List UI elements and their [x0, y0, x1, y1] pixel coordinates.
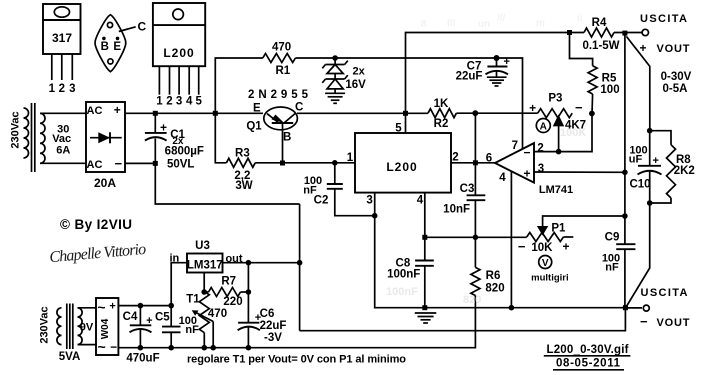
svg-text:9V: 9V: [80, 322, 94, 334]
transformer T230/30V primary coil: [24, 108, 29, 158]
wire: C10 bottom down then diagonal to output junction: [626, 203, 650, 308]
svg-text:© By I2VIU: © By I2VIU: [60, 217, 132, 232]
wire: op-amp pin3 to x625.5 line: [534, 171, 626, 173]
svg-text:V: V: [542, 258, 549, 269]
capacitor C4 470uF: [130, 306, 153, 348]
wire: C1 bottom down and right to x299.6 (ground return): [155, 163, 299, 204]
svg-text:5: 5: [195, 96, 202, 108]
wire: LM317 out to x299.6: [223, 262, 300, 264]
svg-text:10K: 10K: [531, 242, 553, 254]
bridge rectifier 20A box: [86, 102, 125, 190]
svg-text:820: 820: [463, 294, 481, 306]
svg-text:230Vac: 230Vac: [38, 306, 50, 343]
transformer T2 primary coil: [57, 308, 62, 345]
svg-text:+: +: [160, 121, 167, 135]
svg-text:3: 3: [69, 83, 75, 95]
node C6 bottom on rail C: [246, 345, 252, 351]
svg-text:16V: 16V: [345, 79, 366, 91]
svg-text:A: A: [540, 122, 547, 133]
svg-text:−: −: [640, 314, 648, 329]
svg-text:L200_0-30V.gif: L200_0-30V.gif: [547, 344, 629, 356]
wire: x215 down to R3 corner: [215, 113, 226, 163]
svg-text:0-5A: 0-5A: [663, 83, 688, 95]
terminal USCITA + (circle): [642, 29, 648, 35]
svg-text:LM741: LM741: [539, 184, 573, 196]
svg-text:220: 220: [223, 296, 242, 308]
svg-text:+: +: [529, 101, 536, 115]
svg-text:1: 1: [347, 152, 354, 164]
node C10/R8 bottom: [647, 200, 653, 206]
bridge rectifier W04 box: [96, 298, 118, 355]
svg-text:C: C: [295, 102, 303, 114]
node C5 bottom: [168, 345, 174, 351]
svg-text:3: 3: [538, 163, 544, 175]
svg-text:0.1-5W: 0.1-5W: [582, 40, 619, 52]
svg-text:C: C: [137, 20, 146, 34]
node R1 corner on main rail: [213, 111, 218, 116]
svg-text:5: 5: [395, 123, 402, 135]
svg-text:B: B: [283, 132, 291, 144]
node C10/R8 top: [647, 128, 653, 134]
node P3 wiper to pin2: [556, 149, 562, 155]
op-amp pin labels 7 2 6 4 3: [486, 140, 544, 184]
svg-text:un: un: [478, 19, 490, 30]
svg-text:+: +: [109, 301, 115, 313]
capacitor C10 100uF: [638, 131, 662, 203]
svg-text:+: +: [562, 240, 569, 254]
wire: LM317 adj down: [203, 273, 205, 293]
svg-text:ii: ii: [577, 13, 583, 24]
svg-text:100K: 100K: [560, 127, 586, 139]
svg-text:C6: C6: [260, 308, 275, 320]
svg-text:+: +: [146, 315, 152, 327]
capacitor C7 22uF: [486, 56, 510, 77]
svg-text:470: 470: [208, 308, 227, 320]
node C1 bottom: [153, 161, 158, 166]
svg-text:+: +: [114, 103, 121, 117]
label 2N2955 E C Q1 B: [246, 89, 308, 144]
capacitor C6 22uF: [238, 312, 262, 348]
svg-text:L200: L200: [386, 160, 417, 174]
svg-text:22uF: 22uF: [260, 320, 287, 332]
node R7 right on C6 branch: [246, 289, 252, 295]
node R2/C3 junction: [472, 110, 478, 116]
wire junction to terminal: [625, 307, 642, 309]
potentiometer P1 10K: [527, 233, 564, 242]
node C7 tap on y58 wire: [494, 55, 500, 61]
svg-text:R5: R5: [602, 73, 617, 85]
node C4 top: [138, 303, 144, 309]
svg-text:1: 1: [49, 83, 56, 95]
svg-text:~: ~: [97, 299, 105, 315]
svg-text:−: −: [518, 239, 526, 254]
svg-text:20A: 20A: [94, 176, 116, 190]
svg-text:nF: nF: [605, 261, 619, 273]
svg-text:L200: L200: [163, 46, 194, 60]
ground symbol on rail A: [415, 313, 437, 323]
svg-text:nF: nF: [185, 324, 199, 336]
svg-text:470: 470: [272, 42, 291, 54]
potentiometer P3 4K7: [538, 109, 573, 118]
wire: top rail from x405.5 corner to R4: [406, 33, 585, 114]
node R4 left: [567, 30, 572, 35]
resistor R4 0.1-5W: [584, 28, 614, 37]
svg-text:3: 3: [366, 195, 372, 207]
node LM317 out to x299.6: [297, 260, 303, 266]
wire: y237 from pin4 node to P1: [425, 236, 527, 238]
svg-text:4: 4: [499, 172, 506, 184]
node C4 bottom: [138, 345, 144, 351]
LM317 package TO-220 (top-left): [43, 4, 81, 95]
svg-text:R4: R4: [592, 17, 607, 29]
wire: op-amp pin2 to corner x592: [534, 114, 592, 152]
P1 wiper arrow: [537, 226, 548, 236]
node C1 top: [153, 111, 158, 116]
wire: R1 right to zener node to C7 node to pin7 corner: [295, 58, 522, 149]
node zener top: [332, 55, 338, 61]
svg-text:0-30V: 0-30V: [661, 71, 692, 83]
svg-text:2x: 2x: [352, 66, 365, 78]
node C6 branch on out wire: [246, 260, 252, 266]
svg-text:−: −: [575, 100, 583, 115]
wire: C6 branch vertical: [247, 263, 249, 323]
svg-text:R1: R1: [275, 65, 290, 77]
svg-text:C9: C9: [605, 232, 620, 244]
transformer T2 core: [67, 304, 73, 350]
label 30 Vac 6A: [52, 123, 71, 156]
transformer core: [32, 103, 35, 172]
wire: rail B -VOUT return: [300, 308, 626, 331]
signature Chapelle Vittorio: [49, 241, 147, 266]
svg-text:P1: P1: [551, 222, 566, 234]
ammeter A symbol: [536, 119, 550, 133]
2N2955 package TO-3 (top view): [95, 15, 146, 72]
svg-text:U3: U3: [195, 240, 210, 252]
wire: main rail Q1 C to L200 pin5 junction and R2: [297, 112, 428, 114]
transistor Q1 2N2955: [264, 107, 298, 163]
wire: op-amp pin4 down to ground rail: [510, 172, 512, 308]
svg-text:317: 317: [52, 31, 72, 45]
wire: R2 right through P3 lead: [456, 112, 537, 114]
svg-text:470uF: 470uF: [126, 353, 159, 365]
resistor R7 220: [209, 288, 241, 297]
L200 pin labels: [347, 123, 459, 207]
capacitor C5 100nF (on LM317 in line): [162, 327, 181, 348]
wire: op-amp output to L200 pin2: [451, 162, 496, 164]
label P3 + - 4K7: [529, 93, 586, 132]
svg-text:B: B: [101, 41, 109, 53]
P3 wiper arrow: [553, 115, 564, 127]
svg-text:~: ~: [98, 339, 106, 355]
label C1 2x 6800uF 50VL: [165, 129, 204, 171]
svg-text:W04: W04: [100, 318, 111, 339]
svg-text:+: +: [523, 167, 530, 181]
svg-text:R2: R2: [434, 118, 449, 130]
zener diode pair 2x 16V: [322, 58, 348, 93]
wire: x299.6 vertical (C1 return to rail B): [299, 204, 301, 331]
svg-text:+: +: [653, 155, 659, 167]
svg-text:uF: uF: [629, 154, 643, 166]
node R4 right: [622, 31, 627, 36]
label C6 22uF -3V: [260, 308, 287, 344]
capacitor C2 100nF: [327, 163, 375, 216]
node adj/R7/T1: [201, 289, 207, 295]
svg-text:−: −: [110, 340, 117, 354]
svg-text:Q1: Q1: [246, 121, 262, 133]
capacitor C1 2x6800uF: [145, 113, 167, 163]
wire: L200 pin4 down through C8: [424, 193, 426, 261]
node L200 pin5 junction: [403, 111, 408, 116]
node C8 bottom on ground rail: [422, 305, 427, 310]
svg-text:C4: C4: [123, 311, 138, 323]
capacitor C3 10nF (on x475.4 between pin2 wire and y237 wire): [467, 113, 486, 237]
transformer secondary coil 30Vac 6A: [40, 113, 86, 163]
svg-text:6A: 6A: [56, 144, 70, 156]
svg-text:100nF: 100nF: [386, 286, 418, 298]
svg-text:-3V: -3V: [264, 332, 282, 344]
svg-text:100nF: 100nF: [387, 268, 420, 280]
svg-text:LM317: LM317: [187, 259, 223, 271]
label 100 nF C2: [303, 175, 328, 207]
L200 package TO-220 5-pin: [153, 3, 205, 108]
wire: R3 right to L200 pin1: [255, 162, 355, 164]
svg-text:C2: C2: [314, 195, 329, 207]
svg-text:Vac: Vac: [52, 133, 71, 145]
svg-text:230Vac: 230Vac: [10, 111, 22, 148]
svg-text:P3: P3: [548, 93, 562, 105]
wire: diagonal from R4 right node to C10/R8 branch: [626, 36, 649, 130]
LM317 regulator box U3: [187, 254, 223, 273]
svg-text:+: +: [504, 56, 510, 68]
svg-text:III: III: [447, 18, 456, 29]
wire: L200 pin3 down to ground rail: [375, 193, 626, 308]
svg-text:2: 2: [452, 152, 458, 164]
svg-text:C10: C10: [629, 179, 650, 191]
svg-text:3W: 3W: [235, 180, 252, 192]
node pin4/y237 junction: [422, 235, 427, 240]
svg-text:820: 820: [485, 283, 504, 295]
svg-text:m: m: [536, 18, 545, 29]
node pin4 LM741 on ground rail: [509, 305, 515, 311]
svg-text:USCITA: USCITA: [640, 13, 687, 25]
wire: bridge minus to C1 bottom: [125, 162, 155, 164]
capacitor C8 100nF: [415, 261, 434, 308]
svg-text:multigiri: multigiri: [531, 273, 568, 284]
svg-text:R6: R6: [486, 270, 501, 282]
resistor R5 100 with jog from R4 left node: [570, 33, 593, 66]
voltmeter V symbol multigiri: [531, 256, 568, 284]
svg-text:VOUT: VOUT: [657, 317, 690, 329]
svg-text:regolare T1 per Vout= 0V con P: regolare T1 per Vout= 0V con P1 al minim…: [187, 354, 406, 366]
svg-text:3: 3: [176, 96, 182, 108]
svg-text:−: −: [523, 146, 530, 160]
wire: R1 branch corner x215.3 from y58: [215, 58, 262, 113]
svg-text:R7: R7: [221, 275, 236, 287]
svg-text:2: 2: [537, 143, 543, 155]
wire: LM317 in left and down: [171, 263, 187, 327]
node C2 to pin3: [372, 213, 378, 219]
svg-text:8: 8: [421, 19, 427, 30]
label C9 100 nF: [602, 232, 620, 274]
svg-text:2: 2: [166, 96, 172, 108]
L200 regulator box: [355, 133, 451, 193]
node R6/C3 on y237: [473, 235, 479, 241]
svg-text:E: E: [113, 41, 121, 53]
svg-text:100: 100: [600, 84, 619, 96]
node T1 bottoms on rail C: [202, 345, 208, 351]
node P3 right / R5 bottom: [589, 111, 595, 117]
svg-text:5VA: 5VA: [59, 351, 81, 363]
resistor R8 2K2 (parallel with C10): [650, 131, 676, 203]
terminal USCITA - (circle): [643, 305, 649, 311]
resistor R1 470: [263, 54, 296, 63]
svg-text:2K2: 2K2: [674, 165, 695, 177]
wire: pin5 stub: [405, 113, 407, 133]
svg-text:6800µF: 6800µF: [165, 146, 204, 158]
svg-text:USCITA: USCITA: [641, 287, 688, 299]
svg-text:VOUT: VOUT: [657, 43, 690, 55]
svg-text:2: 2: [59, 83, 65, 95]
svg-text:4: 4: [186, 96, 193, 108]
label 100 uF + C10: [629, 145, 659, 191]
node pin3 wire to sense line: [622, 170, 628, 176]
svg-text:22uF: 22uF: [456, 71, 483, 83]
svg-text:E: E: [253, 103, 261, 115]
node C3 top junction: [473, 160, 478, 165]
node C2 tap: [332, 160, 338, 166]
svg-text:08-05-2011: 08-05-2011: [556, 358, 621, 370]
wire R4 to terminal: [614, 32, 642, 34]
svg-text:10nF: 10nF: [443, 204, 470, 216]
resistor R6 820: [118, 237, 480, 347]
svg-text:−: −: [115, 156, 123, 171]
node LM317 in / C5 top: [168, 303, 174, 309]
resistor R2 1K: [428, 109, 456, 118]
svg-text:1: 1: [156, 96, 163, 108]
faint watermarks: [421, 13, 583, 30]
svg-text:50VL: 50VL: [167, 159, 195, 171]
resistor R3 2,2 3W: [226, 158, 255, 167]
svg-text:4: 4: [417, 195, 424, 207]
transformer T2 secondary coil 9V: [78, 308, 97, 345]
svg-text:AC: AC: [87, 159, 103, 171]
output junction node (bottom): [623, 305, 628, 310]
svg-text:T1: T1: [186, 294, 200, 306]
svg-text:R3: R3: [235, 148, 250, 160]
svg-text:1K: 1K: [434, 98, 449, 110]
op-amp U2 LM741 triangle: [495, 143, 534, 183]
wire: W04 + output to C5/in node: [118, 305, 171, 307]
wire: x625.5 sense line from R4 right down to C9: [624, 33, 626, 244]
node Q1 base on pin1 wire: [280, 161, 285, 166]
svg-text:7: 7: [512, 140, 518, 152]
svg-text:+: +: [639, 41, 646, 55]
trimmer T1 470: [192, 291, 214, 347]
ground symbol below zeners: [325, 93, 345, 103]
label P1 - 10K +: [518, 222, 570, 254]
svg-text:C3: C3: [460, 183, 475, 195]
ground symbol below C7: [487, 77, 507, 86]
svg-text:AC: AC: [87, 105, 103, 117]
node P1 wiper wire to sense line: [622, 213, 628, 219]
capacitor C9 100nF (in sense line): [616, 244, 635, 308]
svg-text:C5: C5: [155, 311, 170, 323]
wire: main positive rail y=113.3 bridge+ to C1: [125, 112, 263, 114]
svg-text:///: ///: [497, 13, 506, 24]
